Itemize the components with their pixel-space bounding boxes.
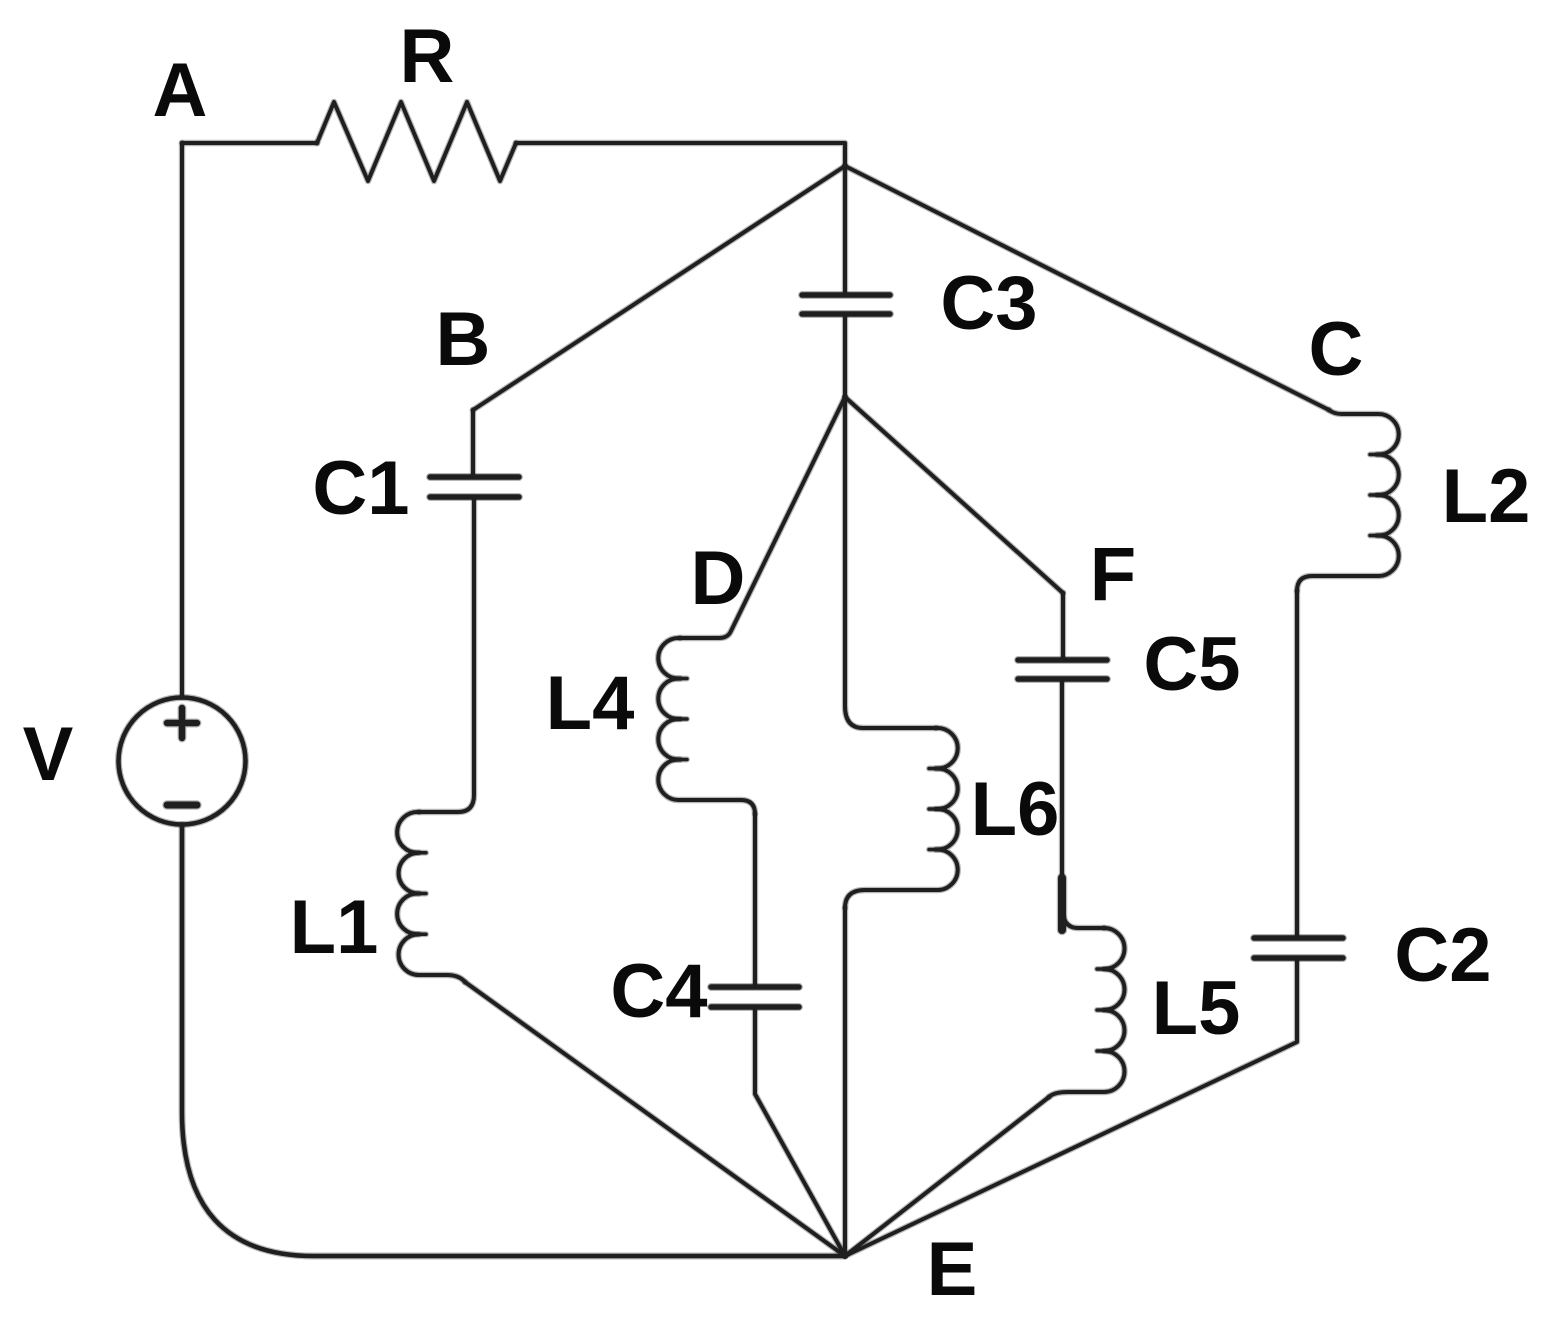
svg-text:V: V (23, 712, 74, 797)
svg-text:D: D (691, 536, 746, 621)
svg-text:B: B (436, 297, 491, 382)
wire mid junction to node F (845, 397, 1063, 593)
inductor L2 (1297, 410, 1399, 591)
svg-text:C: C (1309, 307, 1364, 392)
wire node B down to C1 (471, 410, 475, 474)
svg-text:C3: C3 (940, 261, 1037, 346)
svg-text:E: E (927, 1227, 978, 1312)
wire left: A down to V source (180, 143, 184, 697)
minus sign (167, 802, 197, 809)
svg-text:A: A (153, 48, 208, 133)
inductor L6 (845, 728, 958, 908)
svg-text:L1: L1 (290, 885, 379, 970)
svg-text:L6: L6 (971, 767, 1060, 852)
wire C1 to L1 (419, 500, 474, 812)
svg-text:L4: L4 (546, 661, 635, 746)
svg-text:L5: L5 (1152, 966, 1241, 1051)
wire L2 down to C2 (1295, 591, 1299, 935)
svg-text:C5: C5 (1143, 622, 1240, 707)
voltage source V circle (119, 698, 246, 825)
wire mid junction to node D (680, 397, 845, 638)
wire C5 to L5 (1062, 682, 1104, 928)
capacitor C5 (1018, 660, 1107, 679)
wire top junction to node C (845, 166, 1329, 410)
wire L5 to E (845, 1097, 1049, 1256)
soft halo under-strokes (119, 102, 1399, 1256)
plus sign (167, 708, 197, 738)
wire C3 to mid junction (843, 317, 847, 397)
wire C2 to E (845, 961, 1297, 1256)
wire top: node A to resistor (182, 141, 317, 145)
wire V bottom, rounded corner, bottom wire to E (182, 825, 845, 1256)
wire F down to C5 (1061, 593, 1065, 657)
wire C4 to E (755, 1010, 845, 1256)
capacitor C4 (711, 987, 799, 1007)
capacitor C3 (802, 295, 890, 314)
wire L4 to C4 (753, 814, 757, 985)
wire top junction to C3 (843, 166, 847, 292)
svg-text:F: F (1090, 532, 1136, 617)
svg-text:L2: L2 (1442, 454, 1531, 539)
inductor L4 (658, 638, 755, 814)
wire L1 to E (465, 982, 845, 1256)
capacitor C2 (1254, 938, 1343, 958)
wire L6 to E (843, 908, 847, 1256)
wire resistor to top junction (516, 143, 845, 166)
svg-text:C2: C2 (1394, 913, 1491, 998)
svg-text:C1: C1 (312, 446, 409, 531)
svg-text:C4: C4 (610, 949, 707, 1034)
thick overlap segment on C5-L5 wire (1058, 878, 1066, 930)
inductor L1 (397, 812, 465, 982)
capacitor C1 (430, 477, 519, 497)
resistor R (317, 102, 516, 181)
wire: top junction to node B (473, 166, 845, 410)
wire mid junction down to L6 (845, 397, 936, 728)
inductor L5 (1049, 928, 1125, 1097)
svg-text:R: R (400, 14, 455, 99)
main wiring strokes (119, 102, 1399, 1256)
